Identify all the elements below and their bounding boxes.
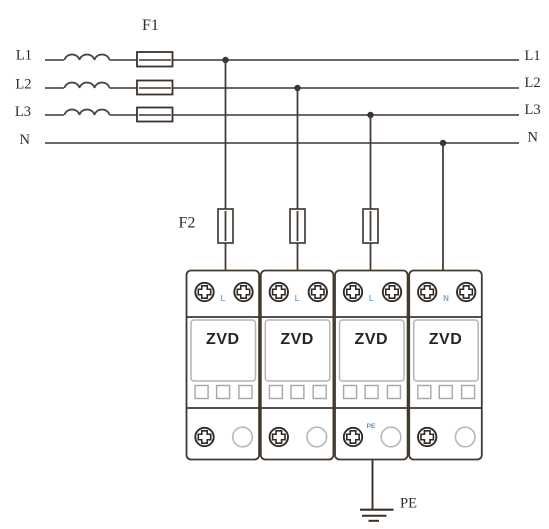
inductor on L1: [65, 54, 110, 60]
wire L3 right segment: [110, 114, 520, 116]
SPD U3 top-left screw terminal: [344, 283, 362, 301]
junction on L3: [367, 112, 373, 118]
SPD U4 top-left screw terminal: [418, 283, 436, 301]
wire from N junction down to SPD 4: [442, 143, 444, 270]
SPD U2 bottom round port: [307, 427, 327, 447]
SPD U4 indicator squares: [418, 386, 475, 399]
svg-text:L1: L1: [525, 48, 541, 64]
svg-text:L: L: [295, 294, 300, 303]
wire L1 left segment: [45, 59, 64, 61]
wire L2 left segment: [45, 87, 64, 89]
svg-text:L3: L3: [15, 104, 31, 120]
svg-text:L2: L2: [15, 77, 31, 93]
SPD U1 indicator squares: [195, 386, 252, 399]
SPD U2 top-right screw terminal: [309, 283, 327, 301]
svg-text:PE: PE: [367, 423, 376, 430]
junction on L1: [222, 57, 228, 63]
fuse F2 on wire 2: [290, 209, 305, 243]
svg-text:L2: L2: [525, 75, 541, 91]
svg-text:ZVD: ZVD: [355, 331, 389, 348]
SPD U3 bottom round port: [381, 427, 401, 447]
SPD module U2 body: [261, 271, 334, 460]
fuse F2 on wire 3: [363, 209, 378, 243]
svg-text:ZVD: ZVD: [206, 331, 240, 348]
wire L3 left segment: [45, 114, 64, 116]
fuse on L3: [137, 108, 173, 122]
SPD U2 top-left screw terminal: [270, 283, 288, 301]
SPD U2 bottom screw terminal: [270, 428, 288, 446]
SPD U1 ZVD window: [191, 320, 256, 381]
SPD U3 top-right screw terminal: [383, 283, 401, 301]
fuse F2 on wire 1: [218, 209, 233, 243]
SPD U4 bottom screw terminal: [418, 428, 436, 446]
svg-text:PE: PE: [400, 496, 417, 512]
wire L2 right segment: [110, 87, 520, 89]
svg-text:N: N: [443, 294, 449, 303]
inductor on L2: [65, 82, 110, 88]
svg-text:ZVD: ZVD: [280, 331, 314, 348]
SPD module U4 body: [409, 271, 482, 460]
SPD U2 indicator squares: [269, 386, 326, 399]
SPD module U3 body: [335, 271, 408, 460]
junction on L2: [294, 85, 300, 91]
SPD U2 ZVD window: [265, 320, 330, 381]
junction on N: [440, 140, 446, 146]
svg-text:L: L: [220, 294, 225, 303]
wire L1 right segment: [110, 59, 520, 61]
svg-text:ZVD: ZVD: [429, 331, 463, 348]
SPD U1 bottom screw terminal: [195, 428, 213, 446]
svg-text:N: N: [528, 130, 539, 146]
SPD U3 indicator squares: [344, 386, 401, 399]
fuse F1 on L1: [137, 52, 173, 67]
wire from L1 junction down to SPD 1: [225, 60, 227, 270]
fuse on L2: [137, 81, 173, 95]
SPD U4 top-right screw terminal: [457, 283, 475, 301]
svg-text:L3: L3: [525, 102, 541, 118]
SPD U1 top-right screw terminal: [234, 283, 252, 301]
SPD U4 bottom round port: [455, 427, 475, 447]
svg-text:F1: F1: [142, 17, 159, 34]
wire from SPD U3 to ground: [372, 460, 374, 509]
wire N: [45, 142, 519, 144]
ground PE symbol: [360, 510, 394, 521]
SPD U3 ZVD window: [340, 320, 405, 381]
wire from L3 junction down to SPD 3: [370, 115, 372, 270]
wire from L2 junction down to SPD 2: [297, 88, 299, 270]
SPD module U1 body: [187, 271, 260, 460]
svg-text:N: N: [20, 132, 31, 148]
svg-text:L1: L1: [16, 48, 32, 64]
inductor on L3: [65, 109, 110, 115]
SPD U3 bottom screw terminal: [344, 428, 362, 446]
svg-text:F2: F2: [179, 215, 196, 232]
SPD U1 bottom round port: [233, 427, 253, 447]
svg-text:L: L: [369, 294, 374, 303]
SPD U1 top-left screw terminal: [195, 283, 213, 301]
SPD U4 ZVD window: [414, 320, 479, 381]
